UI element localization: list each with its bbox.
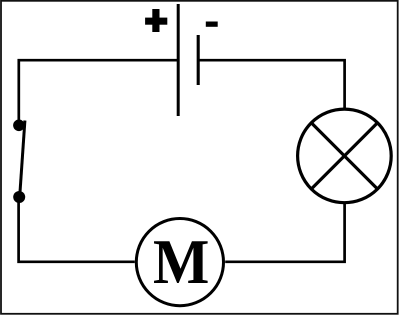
svg-text:M: M [153, 227, 209, 297]
wire: switch top contact up and right to battery positive plate [19, 60, 178, 125]
wire: lamp down and left to motor [225, 204, 344, 262]
motor M1 [136, 219, 223, 306]
battery B1 negative plate (short) [197, 35, 200, 85]
battery polarity label + [145, 9, 167, 32]
battery B1 positive plate (long) [177, 4, 180, 116]
switch S1 top contact node [13, 120, 25, 132]
switch S1 blade [20, 121, 25, 196]
switch S1 bottom contact node [13, 191, 25, 203]
wire: motor left to bottom-left corner and up to switch bottom contact [19, 197, 135, 262]
wire: battery negative plate right and down to lamp [198, 60, 344, 108]
lamp L1 [298, 109, 392, 203]
battery polarity label - [206, 22, 218, 27]
